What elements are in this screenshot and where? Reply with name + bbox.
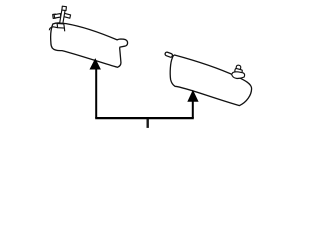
bracket left arm [54, 14, 61, 19]
clip collar [235, 68, 243, 73]
bracket base left curve [49, 27, 57, 30]
right callout arrow [188, 91, 198, 118]
clip base plate [232, 72, 245, 79]
center label tick [146, 119, 148, 128]
sun visor right panel [165, 52, 252, 106]
bracket line (horizontal connector) [95, 117, 194, 119]
left visor pivot bracket (cross screw) [49, 6, 70, 31]
right visor pivot nub [165, 52, 173, 58]
bracket top knob [62, 6, 67, 10]
left callout arrow [90, 59, 100, 118]
clip knob dome [236, 65, 241, 71]
bracket right arm [64, 13, 71, 18]
sun visor left panel [51, 23, 128, 67]
right visor support clip [232, 65, 245, 79]
bracket base box [57, 23, 64, 28]
bracket base right stroke [63, 28, 65, 31]
bracket post [60, 10, 65, 24]
bracket left arm end cap [53, 14, 56, 18]
